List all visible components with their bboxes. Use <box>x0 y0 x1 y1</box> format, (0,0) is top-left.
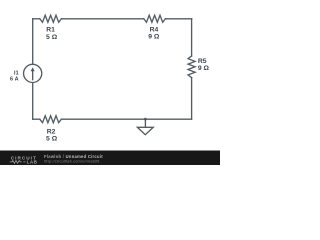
svg-text:9 Ω: 9 Ω <box>148 34 160 41</box>
svg-text:5 Ω: 5 Ω <box>46 34 58 41</box>
wire bottom (R2 right to bottom-right corner) <box>61 118 191 120</box>
ground triangle <box>137 127 153 134</box>
resistor R5 <box>188 56 195 78</box>
wire left lower vertical <box>32 83 34 120</box>
resistor R4 <box>144 15 166 22</box>
svg-text:5 Ω: 5 Ω <box>46 135 58 142</box>
ground stub <box>144 119 146 127</box>
svg-text:R4: R4 <box>150 26 159 33</box>
svg-text:R2: R2 <box>47 128 56 135</box>
wire left upper vertical <box>32 19 34 65</box>
svg-text:6 A: 6 A <box>10 77 19 83</box>
wire top-left horizontal <box>33 18 40 20</box>
wire bottom-left horizontal <box>33 118 40 120</box>
current source I1 arrow head <box>31 67 35 71</box>
resistor R1 <box>40 15 62 22</box>
current source I1 circle <box>24 64 42 82</box>
footer bar <box>0 151 220 166</box>
resistor R2 <box>40 116 62 123</box>
svg-text:Flawlob / Unnamed Circuit: Flawlob / Unnamed Circuit <box>44 154 103 159</box>
current source I1 arrow shaft <box>32 71 34 80</box>
svg-text:I1: I1 <box>14 70 19 76</box>
footer logo resistor zigzag <box>10 160 22 163</box>
wire right lower vertical <box>191 78 193 120</box>
svg-text:LAB: LAB <box>27 159 38 164</box>
wire right upper vertical <box>191 19 193 56</box>
wire top middle (R1 right to R4 left) <box>61 18 143 20</box>
svg-text:R1: R1 <box>46 26 55 33</box>
wire top-right horizontal <box>165 18 191 20</box>
svg-text:9 Ω: 9 Ω <box>198 65 210 72</box>
junction node at ground <box>144 118 147 121</box>
svg-text:http://circuitlab.com/c/rma926: http://circuitlab.com/c/rma926 <box>44 159 100 163</box>
footer logo lead dash <box>23 161 25 163</box>
